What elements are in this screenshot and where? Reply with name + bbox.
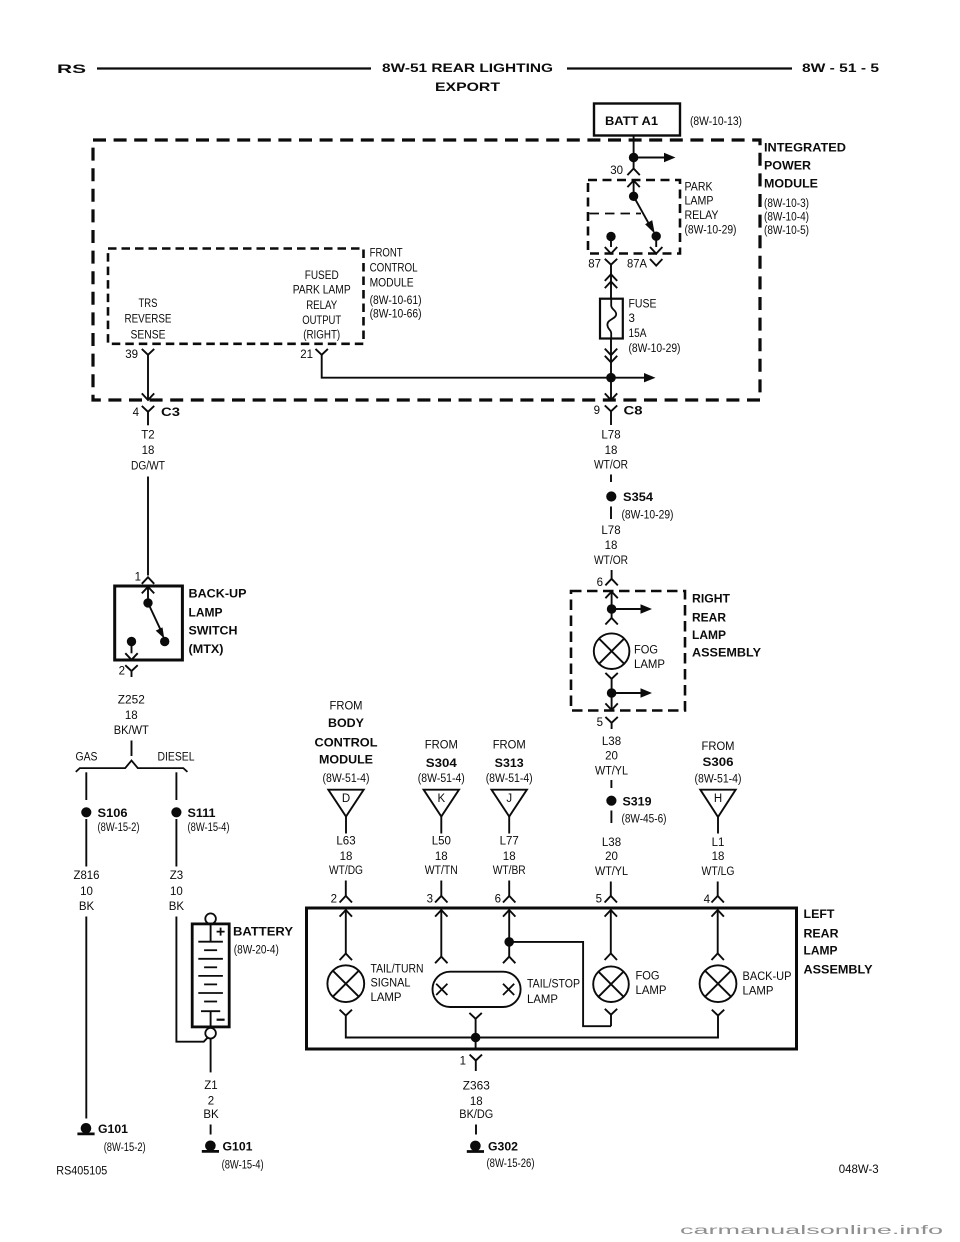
back-up lamp return connector	[712, 1010, 724, 1016]
relay common terminal arrow (pin 30)	[627, 181, 639, 188]
junction dot fog lamp return	[607, 689, 616, 698]
svg-text:S313: S313	[495, 758, 524, 770]
pin 21 connector	[300, 349, 328, 361]
svg-text:C8: C8	[624, 406, 644, 418]
svg-text:BACK-UP: BACK-UP	[743, 971, 792, 983]
svg-text:RS: RS	[57, 64, 87, 76]
svg-text:L78: L78	[601, 525, 620, 537]
pin 1 of back-up lamp switch	[135, 571, 155, 584]
svg-text:(8W-10-3): (8W-10-3)	[764, 198, 809, 210]
wire from BATT A1 into IPM	[633, 136, 635, 169]
switch contact dot right	[161, 637, 169, 645]
pin 6 of left rear lamp assembly	[495, 893, 516, 905]
label FROM S304	[418, 739, 465, 785]
svg-text:CONTROL: CONTROL	[370, 263, 419, 275]
svg-text:18: 18	[340, 851, 353, 863]
svg-text:048W-3: 048W-3	[839, 1164, 879, 1176]
svg-text:3: 3	[427, 893, 433, 905]
svg-text:SWITCH: SWITCH	[189, 626, 238, 638]
svg-text:87: 87	[588, 258, 601, 270]
svg-text:BK/WT: BK/WT	[114, 725, 149, 737]
switch output contact dot left	[127, 637, 135, 645]
svg-text:FROM: FROM	[330, 701, 363, 713]
svg-text:4: 4	[133, 407, 140, 419]
power node box BATT A1	[594, 104, 680, 136]
svg-text:S354: S354	[623, 492, 654, 504]
label FUSE 3 15A	[629, 299, 681, 356]
svg-text:(8W-10-61): (8W-10-61)	[370, 295, 422, 307]
svg-text:LAMP: LAMP	[743, 986, 774, 998]
label FOG LAMP (right)	[634, 645, 665, 672]
svg-text:(8W-10-29): (8W-10-29)	[622, 510, 674, 522]
svg-text:L38: L38	[602, 736, 621, 748]
arrow feed continues right	[612, 608, 643, 610]
svg-text:WT/YL: WT/YL	[595, 866, 629, 878]
junction dot fused output	[607, 373, 616, 382]
pin 2 entry arrow inside box	[340, 910, 352, 917]
svg-text:18: 18	[605, 540, 618, 552]
svg-text:WT/TN: WT/TN	[425, 865, 458, 877]
svg-text:WT/OR: WT/OR	[594, 459, 628, 471]
svg-text:Z252: Z252	[118, 695, 145, 707]
label BACK-UP LAMP SWITCH (MTX)	[189, 589, 247, 656]
wire H to label L1	[717, 817, 719, 834]
splice S106	[82, 808, 128, 820]
svg-text:1: 1	[460, 1055, 466, 1067]
inline connector to tail/stop lamp left element	[435, 957, 447, 964]
routed wire pin 6 junction to fog lamp return	[509, 942, 611, 1026]
svg-text:K: K	[437, 793, 445, 805]
svg-text:BATTERY: BATTERY	[233, 927, 293, 939]
svg-text:FROM: FROM	[425, 739, 458, 751]
arrow return continues right	[612, 692, 643, 694]
tail/turn lamp return connector	[340, 1010, 352, 1016]
svg-text:39: 39	[125, 349, 138, 361]
wire stub below splice S319	[610, 811, 612, 824]
svg-text:DG/WT: DG/WT	[131, 461, 165, 473]
label TRS REVERSE SENSE	[125, 298, 172, 341]
svg-text:S319: S319	[623, 796, 652, 808]
integrated power module dashed box	[93, 140, 760, 400]
wire J to label L77	[508, 817, 510, 834]
wire label Z252 18 BK/WT	[114, 695, 149, 738]
wire pin 21 to fused output junction	[322, 355, 607, 378]
svg-text:5: 5	[596, 893, 602, 905]
wire label L1 18 WT/LG	[702, 837, 735, 878]
svg-text:18: 18	[125, 710, 138, 722]
svg-text:WT/DG: WT/DG	[329, 865, 363, 877]
svg-text:D: D	[342, 793, 350, 805]
inline connector to tail/turn signal lamp	[340, 954, 352, 961]
label TAIL/TURN SIGNAL LAMP	[371, 963, 424, 1004]
pin 6 of right rear lamp assembly	[597, 577, 618, 589]
wire label Z3 10 BK	[169, 870, 185, 913]
svg-text:9: 9	[594, 405, 600, 417]
svg-text:WT/OR: WT/OR	[594, 555, 628, 567]
svg-text:(MTX): (MTX)	[189, 644, 224, 656]
back-up lamp	[700, 965, 737, 1002]
pin 30 of park lamp relay	[610, 165, 640, 177]
svg-text:18: 18	[470, 1096, 483, 1108]
svg-text:RELAY: RELAY	[685, 210, 719, 222]
arrow continuing BATT feed to right	[634, 157, 666, 159]
inline connector to fog lamp (left)	[605, 953, 617, 960]
svg-text:FOG: FOG	[634, 645, 658, 657]
svg-text:BATT A1: BATT A1	[605, 116, 659, 128]
svg-text:Z1: Z1	[204, 1080, 217, 1092]
svg-text:GAS: GAS	[76, 752, 98, 764]
svg-text:8W - 51 - 5: 8W - 51 - 5	[802, 63, 880, 75]
label FROM S306	[695, 741, 742, 785]
tail/stop lamp return connector	[469, 1013, 481, 1019]
svg-text:2: 2	[331, 893, 337, 905]
svg-text:C3: C3	[161, 407, 180, 419]
label FRONT CONTROL MODULE	[370, 248, 422, 321]
svg-text:15A: 15A	[629, 328, 647, 340]
label PARK LAMP RELAY	[685, 182, 737, 237]
right rear lamp assembly dashed box	[571, 591, 685, 711]
wire fuse to output junction	[610, 339, 612, 378]
wire Z252 to gas/diesel split	[131, 741, 133, 757]
svg-text:BK: BK	[79, 901, 95, 913]
svg-text:20: 20	[605, 851, 618, 863]
gas/diesel option split symbol	[76, 761, 188, 772]
svg-text:4: 4	[704, 894, 711, 906]
svg-text:1: 1	[135, 571, 141, 583]
svg-text:(8W-45-6): (8W-45-6)	[622, 813, 667, 825]
relay pivot dot	[629, 192, 637, 200]
fog lamp return connector to routed wire	[605, 1009, 617, 1015]
pin 39 connector	[125, 349, 154, 361]
svg-text:L38: L38	[602, 837, 621, 849]
svg-text:S106: S106	[98, 808, 128, 820]
wire label L38 20 WT/YL	[595, 736, 629, 777]
wire label L78 18 WT/OR	[594, 430, 628, 472]
svg-text:(8W-51-4): (8W-51-4)	[486, 773, 533, 785]
svg-text:(8W-51-4): (8W-51-4)	[323, 773, 370, 785]
off-page connector J	[492, 790, 527, 817]
pin 2 of back-up lamp switch	[119, 665, 138, 678]
pin 5 of left rear lamp assembly	[596, 893, 617, 905]
relay movable contact arm with arrowhead	[634, 196, 651, 226]
svg-text:6: 6	[495, 893, 501, 905]
header rule left	[97, 67, 371, 69]
tail/stop lamp (dual element)	[433, 972, 521, 1007]
svg-text:(8W-20-4): (8W-20-4)	[234, 945, 279, 957]
wire battery negative to label Z1	[210, 1039, 212, 1073]
inline connector double chevron above fuse	[605, 274, 617, 281]
wire pin 39 to C3 with down arrow	[147, 355, 149, 400]
svg-text:RIGHT: RIGHT	[692, 594, 730, 606]
inline connector double chevron below fuse	[605, 349, 617, 356]
svg-text:L1: L1	[712, 837, 725, 849]
svg-text:21: 21	[300, 349, 313, 361]
wire S106 to label Z816	[85, 819, 87, 867]
wire label Z816 10 BK	[74, 870, 100, 913]
pin 2 of left rear lamp assembly	[331, 893, 352, 905]
pin 87 connector	[588, 258, 617, 270]
junction dot on pin 6 feed	[505, 938, 514, 947]
svg-text:FUSED: FUSED	[305, 270, 339, 282]
svg-text:87A: 87A	[627, 258, 647, 270]
wire L63 to pin 2	[345, 881, 347, 897]
svg-text:(8W-10-29): (8W-10-29)	[685, 224, 737, 236]
svg-text:PARK: PARK	[685, 182, 713, 194]
svg-text:(8W-15-2): (8W-15-2)	[104, 1142, 146, 1154]
svg-text:L63: L63	[336, 835, 355, 847]
svg-text:TRS: TRS	[139, 298, 158, 310]
svg-text:(8W-15-26): (8W-15-26)	[487, 1158, 535, 1170]
relay pin 87 lead with down arrow	[610, 237, 612, 248]
label FUSED PARK LAMP RELAY OUTPUT (RIGHT)	[293, 270, 351, 341]
svg-text:LAMP: LAMP	[189, 607, 223, 619]
tail/stop lamp left element X	[436, 984, 447, 995]
svg-text:20: 20	[605, 751, 618, 763]
switch input arrow	[142, 587, 154, 594]
svg-text:LAMP: LAMP	[527, 994, 558, 1006]
pin 3 of left rear lamp assembly	[427, 893, 448, 905]
svg-text:T2: T2	[141, 430, 154, 442]
wire L1 to pin 4	[717, 882, 719, 897]
wire K to label L50	[440, 817, 442, 834]
back-up lamp switch box	[115, 586, 183, 660]
tail/turn signal lamp	[327, 965, 364, 1002]
svg-text:ASSEMBLY: ASSEMBLY	[692, 648, 761, 660]
connector C3 pin 4	[133, 406, 180, 425]
svg-text:WT/BR: WT/BR	[493, 865, 526, 877]
svg-text:(8W-15-4): (8W-15-4)	[188, 822, 230, 834]
wire stub Z1 to ground	[210, 1125, 212, 1135]
svg-text:10: 10	[170, 886, 183, 898]
svg-text:MODULE: MODULE	[370, 278, 414, 290]
junction dot on BATT feed	[629, 153, 638, 162]
fog lamp feed arrow into box	[605, 592, 617, 599]
label LEFT REAR LAMP ASSEMBLY	[804, 909, 873, 976]
off-page connector D	[328, 790, 363, 817]
junction dot fog lamp feed	[607, 605, 616, 614]
wire gas branch to splice S106	[85, 772, 87, 800]
inline connector to tail/stop lamp right element	[503, 957, 515, 964]
svg-text:BACK-UP: BACK-UP	[189, 589, 247, 601]
fog lamp return connector	[605, 673, 617, 679]
wire L50 to pin 3	[440, 881, 442, 897]
wire Z816 to ground G101	[85, 917, 87, 1119]
pin 6 entry arrow inside box	[503, 910, 515, 917]
pin 5 entry arrow inside box	[605, 910, 617, 917]
svg-text:BODY: BODY	[328, 718, 364, 730]
fog lamp (left)	[593, 966, 629, 1002]
svg-text:FRONT: FRONT	[370, 248, 403, 260]
svg-text:3: 3	[629, 313, 635, 325]
wire pin 87 to fuse	[610, 270, 612, 299]
svg-text:EXPORT: EXPORT	[435, 82, 500, 94]
svg-text:OUTPUT: OUTPUT	[302, 315, 341, 327]
svg-text:L78: L78	[601, 430, 620, 442]
pin 5 of right rear lamp assembly	[597, 717, 618, 729]
svg-text:FOG: FOG	[636, 971, 660, 983]
svg-text:S306: S306	[703, 757, 734, 769]
inline connector to back-up lamp	[712, 953, 724, 960]
svg-text:(RIGHT): (RIGHT)	[303, 329, 340, 341]
svg-text:18: 18	[435, 851, 448, 863]
wire label Z363 18 BK/DG	[459, 1081, 493, 1122]
wire junction to IPM edge with down arrow	[610, 378, 612, 400]
svg-text:LAMP: LAMP	[634, 659, 665, 671]
svg-text:(8W-51-4): (8W-51-4)	[695, 773, 742, 785]
svg-text:(8W-15-4): (8W-15-4)	[222, 1160, 264, 1172]
svg-text:LAMP: LAMP	[692, 630, 726, 642]
pin 87A connector (open)	[627, 258, 662, 270]
arrow fused output to right	[611, 377, 646, 379]
svg-text:S111: S111	[188, 808, 217, 820]
svg-text:REAR: REAR	[692, 613, 727, 625]
svg-text:WT/LG: WT/LG	[702, 866, 735, 878]
relay pin 87A lead with down arrow	[655, 236, 657, 247]
svg-text:BK: BK	[203, 1109, 219, 1121]
svg-text:(8W-15-2): (8W-15-2)	[98, 822, 140, 834]
svg-text:SIGNAL: SIGNAL	[371, 978, 412, 990]
ground G101 (gas)	[77, 1124, 128, 1137]
wire label T2 18 DG/WT	[131, 430, 165, 473]
label BACK-UP LAMP	[743, 971, 792, 998]
svg-text:LAMP: LAMP	[804, 946, 838, 958]
svg-text:LAMP: LAMP	[636, 985, 667, 997]
splice S111	[172, 808, 216, 820]
svg-text:18: 18	[142, 445, 155, 457]
svg-text:(8W-10-4): (8W-10-4)	[764, 211, 809, 223]
svg-text:LAMP: LAMP	[685, 196, 714, 208]
wire label L78 18 WT/OR	[594, 525, 628, 567]
svg-text:Z816: Z816	[74, 870, 100, 882]
left rear lamp assembly box	[307, 908, 797, 1049]
ground G101 (diesel)	[202, 1141, 253, 1154]
wire S111 to label Z3	[175, 819, 177, 867]
wire to right rear lamp assembly	[611, 570, 613, 579]
svg-text:REAR: REAR	[804, 928, 840, 940]
pin 1 ground connector below box	[460, 1055, 482, 1071]
splice S319	[607, 796, 652, 808]
header rule right	[567, 67, 792, 69]
svg-text:2: 2	[208, 1096, 214, 1108]
svg-text:FROM: FROM	[493, 739, 526, 751]
label RIGHT REAR LAMP ASSEMBLY	[692, 594, 761, 660]
wire label L77 18 WT/BR	[493, 835, 526, 877]
svg-text:REVERSE: REVERSE	[125, 314, 172, 326]
svg-text:18: 18	[605, 445, 618, 457]
off-page connector K	[424, 790, 459, 817]
battery B1	[192, 913, 229, 1038]
ground G302	[467, 1141, 518, 1154]
connector C8 pin 9	[594, 405, 644, 425]
label FROM BODY CONTROL MODULE	[315, 701, 378, 785]
svg-text:G302: G302	[488, 1142, 518, 1154]
svg-text:H: H	[714, 793, 722, 805]
off-page connector H	[700, 790, 735, 817]
svg-text:(8W-51-4): (8W-51-4)	[418, 773, 465, 785]
svg-text:TAIL/TURN: TAIL/TURN	[371, 963, 424, 975]
svg-text:(8W-10-29): (8W-10-29)	[629, 343, 681, 355]
wire stub above splice S354	[610, 475, 612, 483]
svg-text:10: 10	[80, 886, 93, 898]
svg-text:SENSE: SENSE	[131, 329, 166, 341]
wire D to label L63	[345, 817, 347, 834]
pin 3 entry arrow inside box	[435, 910, 447, 917]
svg-text:PARK LAMP: PARK LAMP	[293, 284, 351, 296]
svg-text:TAIL/STOP: TAIL/STOP	[527, 979, 580, 991]
svg-text:FROM: FROM	[702, 741, 735, 753]
switch output lead with down arrow	[131, 642, 133, 654]
svg-text:18: 18	[503, 851, 516, 863]
relay contact dot 87A side	[652, 232, 660, 240]
switch throw arm with arrowhead	[148, 603, 161, 631]
svg-text:POWER: POWER	[764, 160, 812, 172]
wire label L38 20 WT/YL	[595, 837, 629, 878]
pin 4 of left rear lamp assembly	[704, 894, 724, 906]
svg-text:FUSE: FUSE	[629, 299, 657, 311]
svg-text:6: 6	[597, 577, 603, 589]
inline connector to fog lamp	[611, 609, 613, 618]
tail/stop lamp right element X	[503, 984, 514, 995]
wire stub below splice S354	[610, 507, 612, 520]
pin 4 entry arrow inside box	[712, 910, 724, 917]
wire C3 to back-up lamp switch	[147, 477, 149, 576]
svg-text:MODULE: MODULE	[764, 178, 818, 190]
junction dot common lamp return	[471, 1033, 480, 1042]
wire L77 to pin 6	[508, 881, 510, 897]
svg-text:BK: BK	[169, 901, 185, 913]
svg-text:5: 5	[597, 717, 603, 729]
svg-text:WT/YL: WT/YL	[595, 765, 629, 777]
svg-text:LEFT: LEFT	[804, 909, 835, 921]
svg-text:RELAY: RELAY	[306, 300, 337, 312]
wire Z3 to battery negative terminal	[176, 917, 207, 1042]
fog lamp (right)	[594, 633, 630, 669]
fuse F3 15A	[600, 299, 623, 339]
svg-text:(8W-10-13): (8W-10-13)	[690, 116, 742, 128]
svg-text:2: 2	[119, 666, 125, 678]
wire diesel branch to splice S111	[175, 772, 177, 800]
svg-text:S304: S304	[426, 758, 458, 770]
svg-text:INTEGRATED: INTEGRATED	[764, 143, 846, 155]
wire label L63 18 WT/DG	[329, 835, 363, 877]
svg-text:30: 30	[610, 165, 623, 177]
label FROM S313	[486, 739, 533, 785]
svg-text:L77: L77	[500, 835, 519, 847]
svg-text:(8W-10-66): (8W-10-66)	[370, 309, 422, 321]
svg-text:J: J	[506, 793, 512, 805]
splice S354	[607, 492, 654, 504]
svg-text:G101: G101	[223, 1142, 254, 1154]
svg-text:DIESEL: DIESEL	[158, 752, 196, 764]
svg-text:ASSEMBLY: ASSEMBLY	[804, 965, 873, 977]
relay coil divider dashed line	[590, 213, 642, 215]
svg-text:(8W-10-5): (8W-10-5)	[764, 225, 809, 237]
relay fixed contact dot 87 side	[607, 232, 615, 240]
label INTEGRATED POWER MODULE	[764, 143, 846, 237]
relay K1 park lamp relay dashed box	[588, 180, 680, 254]
svg-text:carmanualsonline.info: carmanualsonline.info	[680, 1225, 943, 1237]
wire S319 to left rear lamp assembly pin 5	[610, 882, 612, 897]
svg-text:MODULE: MODULE	[319, 755, 373, 767]
label FOG LAMP (left)	[636, 971, 667, 998]
svg-text:Z3: Z3	[170, 870, 183, 882]
svg-text:8W-51 REAR LIGHTING: 8W-51 REAR LIGHTING	[382, 63, 553, 75]
switch common dot	[144, 599, 152, 607]
svg-text:RS405105: RS405105	[56, 1165, 107, 1177]
label TAIL/STOP LAMP	[527, 979, 580, 1007]
wire return to box edge with down arrow	[611, 693, 613, 710]
wire label Z1 2 BK	[203, 1080, 219, 1121]
